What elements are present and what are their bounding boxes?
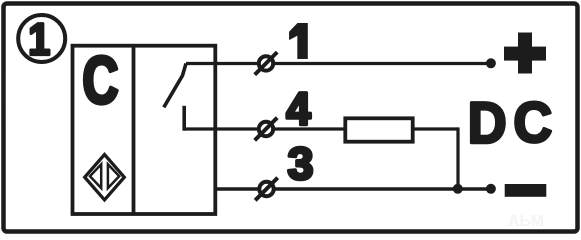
svg-text:АЬМ: АЬМ [508, 213, 544, 230]
